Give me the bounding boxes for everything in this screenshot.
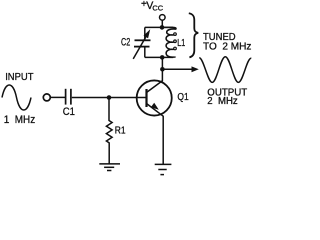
svg-text:CC: CC (152, 3, 163, 12)
svg-text:TO 2 MHz: TO 2 MHz (203, 42, 251, 53)
svg-text:INPUT: INPUT (5, 72, 33, 83)
svg-text:C1: C1 (63, 106, 75, 118)
svg-text:C2: C2 (121, 37, 130, 49)
svg-text:R1: R1 (115, 126, 126, 137)
svg-text:Q1: Q1 (177, 92, 189, 103)
svg-text:1 MHz: 1 MHz (4, 114, 36, 126)
svg-text:2 MHz: 2 MHz (207, 96, 237, 107)
svg-text:L1: L1 (177, 38, 185, 49)
